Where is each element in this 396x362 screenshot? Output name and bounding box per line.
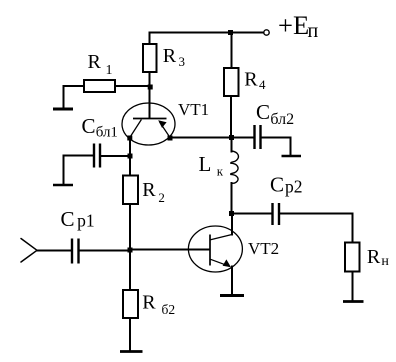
- svg-text:R: R: [244, 69, 258, 91]
- svg-text:C: C: [256, 100, 270, 124]
- svg-text:R: R: [142, 292, 156, 314]
- svg-text:R: R: [163, 45, 177, 67]
- svg-text:VT1: VT1: [178, 100, 209, 119]
- svg-text:2: 2: [158, 190, 165, 205]
- svg-text:+E: +E: [278, 10, 309, 40]
- svg-text:4: 4: [259, 77, 266, 92]
- svg-text:к: к: [217, 163, 224, 178]
- svg-text:p2: p2: [285, 176, 303, 196]
- svg-text:C: C: [270, 172, 284, 196]
- svg-text:L: L: [199, 152, 212, 176]
- svg-text:R: R: [142, 179, 156, 201]
- svg-text:C: C: [82, 114, 96, 138]
- svg-text:R: R: [367, 246, 381, 268]
- svg-text:C: C: [61, 207, 75, 231]
- svg-text:б2: б2: [162, 302, 176, 317]
- svg-text:VT2: VT2: [248, 239, 279, 258]
- svg-text:1: 1: [106, 63, 113, 78]
- svg-text:н: н: [381, 254, 389, 269]
- svg-text:п: п: [308, 20, 319, 42]
- svg-text:p1: p1: [77, 211, 95, 231]
- svg-text:бл1: бл1: [96, 125, 118, 141]
- svg-text:бл2: бл2: [270, 111, 294, 128]
- svg-text:R: R: [88, 51, 102, 73]
- svg-text:3: 3: [179, 54, 186, 69]
